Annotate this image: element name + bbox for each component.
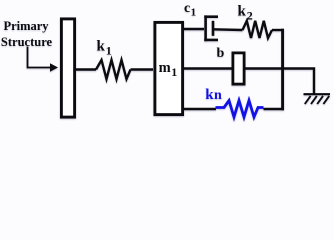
right bus (vertical connecting rod)	[281, 29, 284, 111]
wire inerter b to right bus	[244, 67, 284, 69]
wire spring k1 to mass m1	[131, 68, 154, 70]
spring kn (blue)	[216, 101, 264, 118]
wire m1 to damper c1 (top branch)	[183, 28, 204, 30]
wire spring kn to right bus	[264, 108, 284, 110]
svg-text:1: 1	[171, 65, 177, 79]
wire damper piston to spring k2	[213, 28, 243, 31]
label kn (blue)	[205, 87, 222, 103]
label k2	[238, 4, 253, 23]
label k1	[97, 39, 112, 58]
spring k1	[96, 60, 131, 79]
wire m1 to spring kn (bottom branch)	[183, 108, 216, 110]
wire spring k2 to right bus	[272, 29, 284, 31]
svg-text:2: 2	[247, 9, 253, 23]
svg-text:k: k	[97, 39, 106, 55]
ground	[304, 94, 331, 104]
svg-text:c: c	[184, 1, 190, 16]
label: Primary Structure	[1, 19, 53, 49]
damper c1 (cylinder open right, piston inside)	[204, 15, 218, 41]
arrow (pointer from label to wall)	[28, 47, 59, 72]
svg-text:Primary: Primary	[3, 19, 49, 33]
svg-text:1: 1	[191, 7, 197, 19]
wire right bus to ground	[284, 69, 314, 95]
label m1	[159, 60, 178, 79]
inerter b (block element)	[233, 53, 244, 84]
svg-text:b: b	[217, 46, 225, 61]
label b	[217, 46, 225, 61]
wire wall to spring k1	[76, 68, 96, 70]
svg-text:m: m	[159, 60, 171, 76]
mass m1	[155, 22, 183, 114]
svg-text:k: k	[238, 4, 247, 20]
wire m1 to inerter b (middle branch)	[183, 67, 232, 69]
spring k2	[243, 21, 273, 38]
svg-text:1: 1	[106, 44, 112, 58]
wall (primary structure support)	[61, 19, 74, 117]
svg-text:n: n	[214, 88, 222, 103]
label c1	[184, 1, 196, 19]
svg-text:k: k	[205, 87, 214, 103]
